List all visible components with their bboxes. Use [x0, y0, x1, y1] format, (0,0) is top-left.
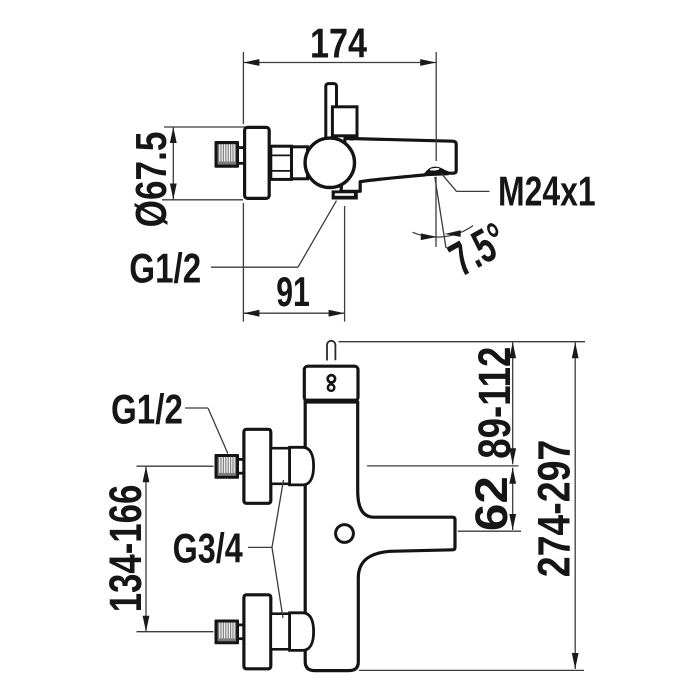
- spout body: [341, 138, 456, 191]
- dim line 91: [243, 312, 344, 314]
- ext line bottom: [359, 669, 584, 671]
- svg-text:G1/2: G1/2: [111, 387, 183, 434]
- tab under grip: [350, 136, 354, 141]
- dim line 174: [243, 62, 436, 64]
- wire: 7.5deg tilted line: [435, 177, 446, 248]
- top cap: [304, 366, 358, 401]
- wire: ext line right of 174 / outlet axis: [435, 52, 437, 161]
- lever grip block: [332, 107, 357, 136]
- outlet lens M24x1: [424, 168, 449, 176]
- svg-text:G1/2: G1/2: [129, 246, 201, 293]
- leader G1/2 bottom: [185, 407, 208, 409]
- dim 89-112: [512, 342, 514, 464]
- svg-text:Ø67.5: Ø67.5: [127, 132, 176, 228]
- ext lines 91: [242, 203, 244, 322]
- donut big: [328, 375, 335, 382]
- svg-text:134-166: 134-166: [101, 485, 151, 613]
- svg-text:91: 91: [276, 268, 310, 315]
- section B into body: [292, 147, 308, 179]
- dim line dia 67.5: [172, 127, 174, 200]
- cartridge body circle: [305, 138, 354, 187]
- thread nipple G1/2 wall connection: [215, 141, 240, 168]
- leader G1/2 top view: [211, 266, 298, 268]
- svg-text:G3/4: G3/4: [173, 524, 243, 571]
- svg-text:274-297: 274-297: [529, 440, 579, 578]
- upper S-union: [215, 429, 314, 503]
- lower S-union: [215, 595, 314, 669]
- svg-text:174: 174: [310, 20, 368, 67]
- knob circle on body: [336, 525, 354, 543]
- dim 62: [512, 468, 514, 530]
- dim 134-166: [145, 466, 147, 632]
- ext line lower union left: [137, 631, 214, 633]
- ext line union level left: [137, 465, 214, 467]
- leader G3/4 double: [248, 546, 272, 548]
- leader M24x1: [441, 173, 456, 191]
- angular dim arc 7.5: [413, 226, 474, 238]
- black band joint: [304, 399, 359, 403]
- lever shaft: [326, 84, 337, 140]
- stem between thread and flange: [239, 146, 245, 149]
- hose hook on top: [327, 341, 335, 361]
- svg-text:M24x1: M24x1: [498, 167, 596, 214]
- shower outlet under circle: [332, 190, 358, 199]
- ext line union level right: [367, 465, 519, 467]
- union nut section A: [271, 146, 292, 179]
- svg-text:89-112: 89-112: [469, 347, 519, 459]
- ext line spout level: [458, 530, 521, 532]
- wall flange (escutcheon): [245, 127, 270, 198]
- svg-text:62: 62: [467, 476, 517, 531]
- donut small: [328, 384, 334, 390]
- faucet body with spout arm: [305, 402, 455, 671]
- dim 274-297: [574, 342, 576, 669]
- ext line top (hook level): [339, 341, 586, 343]
- ext lines dia 67.5: [164, 126, 247, 128]
- wire: ext line left of 174: [242, 52, 244, 124]
